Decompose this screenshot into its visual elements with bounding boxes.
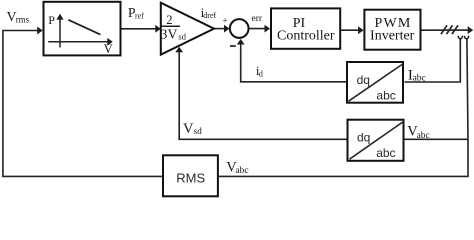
svg-text:abc: abc — [376, 89, 395, 103]
svg-text:Controller: Controller — [277, 29, 335, 44]
svg-text:3V: 3V — [160, 28, 177, 43]
svg-text:sd: sd — [194, 126, 203, 136]
svg-text:dq: dq — [357, 73, 370, 87]
svg-text:+: + — [223, 15, 228, 25]
svg-text:err: err — [252, 14, 263, 24]
svg-text:V: V — [104, 42, 113, 56]
svg-text:abc: abc — [235, 166, 248, 176]
svg-text:ref: ref — [135, 11, 144, 20]
svg-text:d: d — [259, 70, 263, 79]
svg-text:P: P — [48, 13, 55, 27]
svg-text:dq: dq — [357, 131, 370, 145]
svg-text:abc: abc — [413, 74, 426, 84]
svg-text:Inverter: Inverter — [370, 29, 415, 44]
svg-text:abc: abc — [417, 131, 430, 141]
svg-text:2: 2 — [166, 13, 172, 27]
svg-text:RMS: RMS — [176, 170, 205, 185]
svg-text:V: V — [183, 121, 194, 137]
svg-text:sd: sd — [178, 31, 186, 41]
svg-text:abc: abc — [376, 146, 395, 160]
svg-text:dref: dref — [203, 11, 216, 20]
svg-text:rms: rms — [16, 15, 30, 25]
